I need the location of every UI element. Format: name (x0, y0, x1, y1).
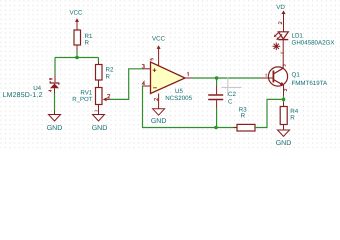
svg-text:VCC: VCC (69, 10, 83, 17)
wire U4 to GND (54, 93, 56, 111)
wire R1 bottom to top net (76, 51, 78, 58)
svg-text:R: R (241, 113, 246, 120)
ground (U5) (151, 109, 167, 125)
pin 1 stub U5 (185, 77, 193, 79)
ground (U4) (47, 111, 63, 132)
wire top net down to U4 (54, 58, 56, 76)
pin 8 U4 (49, 78, 52, 80)
pin 1 number LD1 bottom (281, 52, 284, 55)
resistor R4 (280, 99, 287, 130)
pin 3 number Q1 collector (283, 65, 286, 67)
svg-text:VD: VD (276, 4, 285, 11)
pin 4 stub U5 (143, 85, 151, 87)
svg-text:GND: GND (151, 118, 167, 125)
op-amp U5 (151, 62, 186, 94)
wire top net down to R2 (98, 58, 100, 62)
resistor R1 (74, 30, 81, 51)
svg-text:NCS2005: NCS2005 (165, 95, 192, 102)
svg-text:GND: GND (47, 125, 63, 132)
power symbol VCC (op-amp) (152, 36, 166, 66)
capacitor C2 (208, 78, 223, 128)
svg-text:R: R (290, 114, 295, 121)
svg-text:GND: GND (276, 140, 292, 147)
svg-text:R_POT: R_POT (72, 96, 92, 103)
svg-text:FMMT619TA: FMMT619TA (292, 80, 329, 87)
svg-text:U5: U5 (175, 88, 183, 95)
power symbol VCC (left) (69, 10, 83, 31)
cursor crosshair (222, 78, 242, 97)
pin 3 RV1 bottom (95, 110, 97, 112)
wire RV1 wiper to op-amp +input (109, 69, 143, 100)
pin 3 number (142, 64, 144, 68)
pin 5 U5 (150, 58, 153, 60)
wire top net horizontal (55, 57, 99, 59)
svg-text:R: R (85, 39, 90, 46)
wire R3 to emitter node (255, 99, 284, 127)
ground (RV1) (92, 115, 108, 133)
resistor R2 (96, 62, 103, 88)
laser star (273, 43, 281, 51)
pin 1 number Q1 base (264, 74, 267, 77)
pin 2 number Q1 emitter (284, 89, 287, 91)
LED emission arrow b (276, 34, 282, 40)
resistor R3 (234, 124, 259, 131)
svg-text:R: R (106, 74, 111, 81)
svg-text:LM285D-1.2: LM285D-1.2 (3, 92, 43, 99)
LED emission arrow a (274, 31, 280, 37)
wire feedback net (pin4 to emitter sense) (143, 86, 238, 128)
junction output/C2 (215, 76, 219, 80)
pin 2 RV1 (107, 94, 110, 98)
junction top net (75, 56, 79, 60)
transistor Q1 (261, 40, 288, 100)
pin 2 number (154, 98, 157, 100)
svg-text:U4: U4 (33, 85, 41, 92)
pin 4 U4 (49, 90, 52, 92)
pin 2 number LD1 top (279, 22, 282, 24)
potentiometer RV1 (96, 88, 110, 115)
pin 3 stub U5 (143, 68, 151, 70)
pin 1 RV1 top (95, 86, 97, 89)
svg-text:GND: GND (92, 125, 108, 132)
svg-text:VCC: VCC (152, 36, 166, 43)
ground (R4) (276, 130, 292, 147)
svg-text:RV1: RV1 (80, 89, 92, 96)
pin 2 stub U5 (158, 94, 160, 109)
junction feedback/C2 (214, 126, 218, 130)
svg-text:R2: R2 (106, 67, 114, 74)
pin 1 number (186, 72, 189, 76)
svg-text:C2: C2 (228, 91, 236, 98)
pin 4 number (142, 81, 145, 85)
svg-text:C: C (228, 98, 233, 105)
svg-text:Q1: Q1 (292, 72, 301, 79)
svg-text:GH04580A2GX: GH04580A2GX (292, 39, 335, 46)
laser diode LD1 (278, 32, 288, 40)
wire op-amp output to Q1 base (193, 77, 262, 79)
zener diode U4 (50, 76, 59, 94)
junction emitter node (282, 98, 286, 102)
power symbol VD (276, 4, 285, 32)
